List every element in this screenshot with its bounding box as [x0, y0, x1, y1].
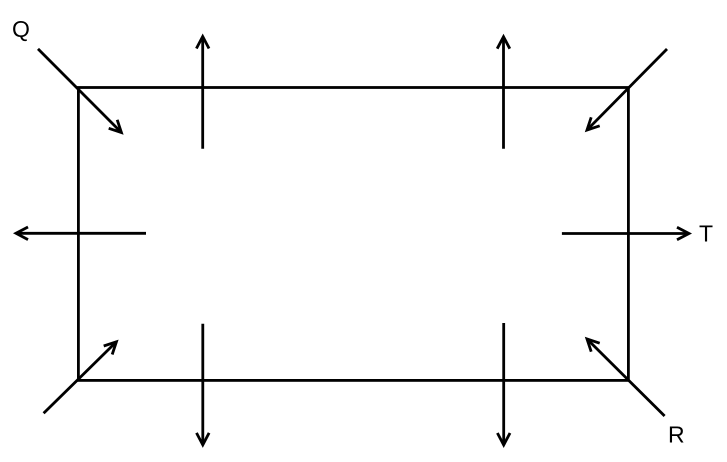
svg-text:R: R [668, 422, 685, 448]
svg-text:Q: Q [12, 16, 30, 42]
force arrow bottom-left (diagonal into bottom-left corner) [44, 342, 117, 414]
rightward arrow T on right edge [562, 227, 689, 240]
force arrow R (diagonal into bottom-right corner) [587, 339, 665, 416]
leftward arrow on left edge [16, 227, 146, 240]
rectangle body [78, 88, 628, 381]
upward arrow right on top edge [497, 37, 510, 149]
force arrow Q (diagonal into top-left corner) [38, 49, 121, 133]
svg-text:T: T [699, 221, 713, 247]
downward arrow left on bottom edge [197, 324, 210, 445]
upward arrow left on top edge [196, 37, 209, 149]
force arrow top-right (diagonal into top-right corner) [587, 49, 667, 130]
downward arrow right on bottom edge [497, 323, 510, 445]
